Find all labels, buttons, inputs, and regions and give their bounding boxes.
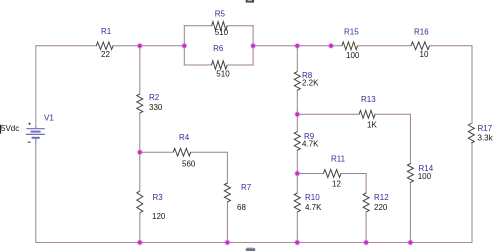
svg-text:10: 10: [420, 50, 429, 59]
svg-text:120: 120: [152, 212, 166, 221]
svg-text:4.7K: 4.7K: [305, 203, 322, 212]
svg-text:68: 68: [237, 203, 246, 212]
svg-text:R7: R7: [241, 183, 252, 192]
svg-text:R17: R17: [478, 124, 493, 133]
svg-text:R15: R15: [344, 27, 359, 36]
svg-text:R3: R3: [153, 193, 164, 202]
svg-text:R4: R4: [179, 133, 190, 142]
svg-text:1K: 1K: [367, 121, 377, 130]
svg-text:R5: R5: [215, 10, 226, 19]
svg-text:R6: R6: [213, 44, 224, 53]
svg-text:12: 12: [332, 180, 341, 189]
svg-text:R2: R2: [149, 93, 160, 102]
svg-text:2.2K: 2.2K: [302, 79, 319, 88]
svg-text:560: 560: [182, 160, 196, 169]
svg-text:R12: R12: [374, 193, 389, 202]
svg-text:5Vdc: 5Vdc: [1, 124, 19, 133]
svg-text:330: 330: [149, 103, 163, 112]
svg-text:R10: R10: [305, 193, 320, 202]
svg-text:R1: R1: [101, 27, 112, 36]
svg-text:100: 100: [346, 51, 360, 60]
svg-text:R13: R13: [361, 95, 376, 104]
svg-text:R11: R11: [331, 155, 346, 164]
svg-text:510: 510: [215, 28, 229, 37]
svg-text:100: 100: [418, 172, 432, 181]
svg-text:4.7K: 4.7K: [302, 140, 319, 149]
svg-text:V1: V1: [44, 113, 54, 122]
svg-text:R16: R16: [414, 28, 429, 37]
svg-text:22: 22: [101, 50, 110, 59]
svg-text:510: 510: [216, 70, 230, 79]
svg-text:220: 220: [374, 203, 388, 212]
svg-text:3.3k: 3.3k: [478, 134, 494, 143]
